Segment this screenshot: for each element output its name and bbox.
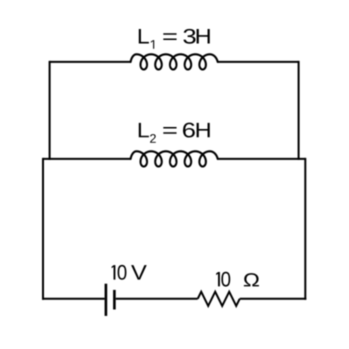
- wire lower-right vertical: [304, 158, 306, 300]
- label L2 = 6H: [139, 123, 210, 143]
- wire left vertical of top loop: [49, 61, 51, 160]
- wire resistor to bottom-right corner: [240, 298, 307, 300]
- resistor R1 zigzag: [198, 292, 240, 306]
- wire lower-left vertical: [42, 158, 44, 300]
- wire right vertical of top loop: [298, 61, 300, 160]
- wire middle-left horizontal: [43, 158, 131, 160]
- inductor L2: [131, 151, 218, 166]
- label L1 = 3H: [139, 29, 210, 49]
- label 10 V: [112, 265, 147, 280]
- wire middle-right horizontal: [218, 158, 306, 160]
- battery V1 long plate: [105, 284, 108, 316]
- wire top-right horizontal: [218, 61, 299, 63]
- wire battery to resistor: [116, 298, 198, 300]
- battery V1 short plate: [113, 290, 116, 310]
- inductor L1: [131, 54, 218, 69]
- wire top-left horizontal: [50, 61, 131, 63]
- wire bottom-left horizontal: [42, 298, 105, 300]
- label 10 Ohm: [216, 272, 259, 287]
